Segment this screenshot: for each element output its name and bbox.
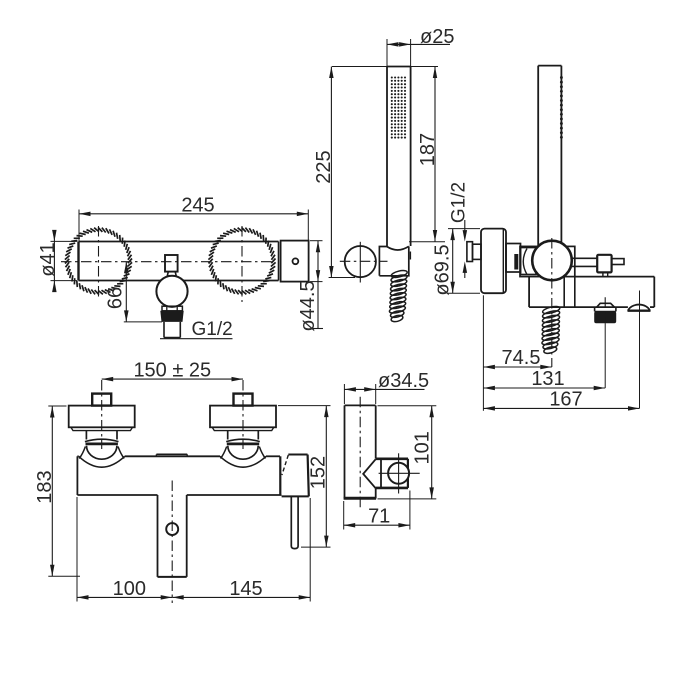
left wall rosette (textured ring) [128, 259, 132, 264]
dimension 145 [172, 596, 310, 598]
dimension 183 extension lines [48, 405, 66, 407]
svg-text:ø41: ø41 [37, 242, 59, 276]
valve body circle [532, 241, 572, 281]
outlet bracket [376, 457, 408, 460]
dimension 152 extension lines [278, 405, 331, 407]
valve housing [520, 246, 575, 276]
temperature handle knob [597, 255, 611, 273]
svg-text:ø34.5: ø34.5 [378, 370, 429, 392]
dimension dia44.5 extension lines [310, 240, 323, 242]
dimension 167 [483, 407, 639, 409]
dimension 187 [434, 67, 436, 242]
end cap screw hole [293, 258, 299, 264]
hand shower tube (side) [538, 65, 561, 67]
cartridge neck [167, 272, 168, 277]
mixer body tube (front) [79, 241, 279, 243]
dimension dia69.5 extension lines [448, 228, 480, 230]
handle base block [288, 454, 307, 456]
dimension 150 +/- 25 [102, 378, 243, 380]
valve centerline [551, 238, 553, 367]
svg-text:G1/2: G1/2 [192, 319, 233, 340]
outlet crosshair [379, 472, 420, 474]
svg-text:245: 245 [181, 194, 214, 216]
outlet circle (aerator) [388, 463, 409, 484]
connector dark seal [514, 254, 518, 270]
diverter knurled knob [594, 311, 616, 323]
mixer body (front, lower view) [77, 455, 78, 457]
svg-text:G1/2: G1/2 [449, 182, 470, 223]
mixer lower body (side) [575, 276, 655, 278]
body end cap [281, 241, 309, 282]
svg-text:74.5: 74.5 [502, 347, 541, 369]
handle stem [612, 259, 624, 265]
spout extension line [639, 291, 641, 409]
housing inner curve [523, 249, 527, 275]
knob tabs [602, 272, 604, 276]
spout column (side) [345, 404, 376, 406]
dimension 101 extension lines [378, 405, 437, 407]
dimension dia69.5 [452, 229, 454, 294]
flange-valve connector [506, 244, 521, 273]
dimension dia41 [53, 231, 55, 288]
dimension dia34.5 [344, 388, 424, 390]
svg-text:167: 167 [549, 389, 582, 411]
wall flange (side) [481, 229, 506, 294]
dimension 152 [325, 406, 327, 547]
valve collar [162, 306, 182, 311]
svg-text:66: 66 [105, 287, 127, 309]
svg-text:ø44.5: ø44.5 [297, 280, 319, 331]
spout set screw [166, 523, 178, 535]
dimension dia41 extension lines [51, 240, 78, 242]
shower hose (coiled spring, front) [391, 269, 408, 279]
right rosette centerline [241, 226, 243, 302]
dimension 183 [51, 406, 53, 576]
horizontal centerline [61, 261, 272, 263]
diverter collar band [594, 307, 596, 311]
left extension line (wall face) [482, 295, 484, 411]
svg-text:131: 131 [531, 368, 564, 390]
spray dots (side) [560, 76, 563, 79]
svg-text:187: 187 [417, 133, 439, 166]
temperature handle arm [571, 257, 597, 259]
bracket centerline vertical [359, 242, 361, 283]
svg-text:150 ± 25: 150 ± 25 [133, 359, 211, 381]
wall supply nipple [467, 242, 473, 262]
dimension 100 [77, 596, 172, 598]
left rosette centerline [98, 226, 100, 299]
shower hose (coiled spring, side) [542, 305, 560, 315]
dimension dia25 extension lines [386, 39, 388, 67]
extension line 225/187 top [332, 66, 438, 68]
outlet wedge [363, 459, 376, 488]
hand shower handle [387, 66, 411, 68]
right eccentric union [234, 394, 253, 406]
G1/2 thread (knurled) [160, 311, 183, 322]
dimension dia44.5 [317, 241, 319, 329]
holder outlet nub [409, 252, 411, 260]
dimension 71 [344, 524, 410, 526]
shower holder block [379, 246, 408, 275]
dimension dia25 [387, 43, 450, 45]
dimension dia34.5 extension lines [343, 384, 345, 404]
diverter ball valve [156, 276, 187, 307]
diverter dome (side) [597, 303, 615, 307]
dimension 71 extension lines [343, 501, 345, 530]
dimension 66 [125, 262, 127, 322]
svg-text:152: 152 [308, 456, 330, 489]
svg-text:71: 71 [368, 505, 390, 527]
mounting ridge [156, 453, 187, 455]
svg-text:145: 145 [229, 578, 262, 600]
spout outlet dome [628, 305, 650, 311]
spout centerline [171, 481, 173, 604]
diverter centerline/extension [604, 297, 606, 323]
right eccentric centerline [242, 380, 244, 449]
left eccentric union [92, 394, 111, 406]
svg-text:ø69.5: ø69.5 [432, 244, 454, 295]
spray face dots [391, 76, 393, 78]
diverter cartridge [165, 255, 178, 272]
dimension 245 extension lines [78, 210, 80, 242]
bracket centerline horizontal [340, 260, 388, 262]
tub spout (front) [157, 495, 159, 577]
spout centerline (side) [359, 397, 361, 509]
dimension 74.5 [483, 366, 551, 368]
dimension G1/2 leader arrows [464, 220, 466, 231]
svg-text:100: 100 [113, 578, 146, 600]
body inner edges [563, 277, 565, 308]
lever rod [291, 496, 298, 548]
svg-text:101: 101 [412, 431, 434, 464]
svg-text:ø25: ø25 [420, 26, 454, 48]
right wall rosette (textured ring) [271, 259, 275, 264]
wall bracket ring [345, 246, 376, 277]
dimension 225 [330, 67, 332, 278]
dimension 131 [483, 387, 605, 389]
dimension 101 [431, 406, 433, 499]
outlet pipe [163, 322, 165, 338]
dimension 100/145 extension lines [76, 497, 78, 602]
dimension 245 [79, 213, 308, 215]
svg-text:183: 183 [34, 470, 56, 503]
svg-text:225: 225 [313, 150, 335, 183]
spout column base (thick) [344, 497, 377, 500]
left eccentric centerline [101, 380, 103, 449]
